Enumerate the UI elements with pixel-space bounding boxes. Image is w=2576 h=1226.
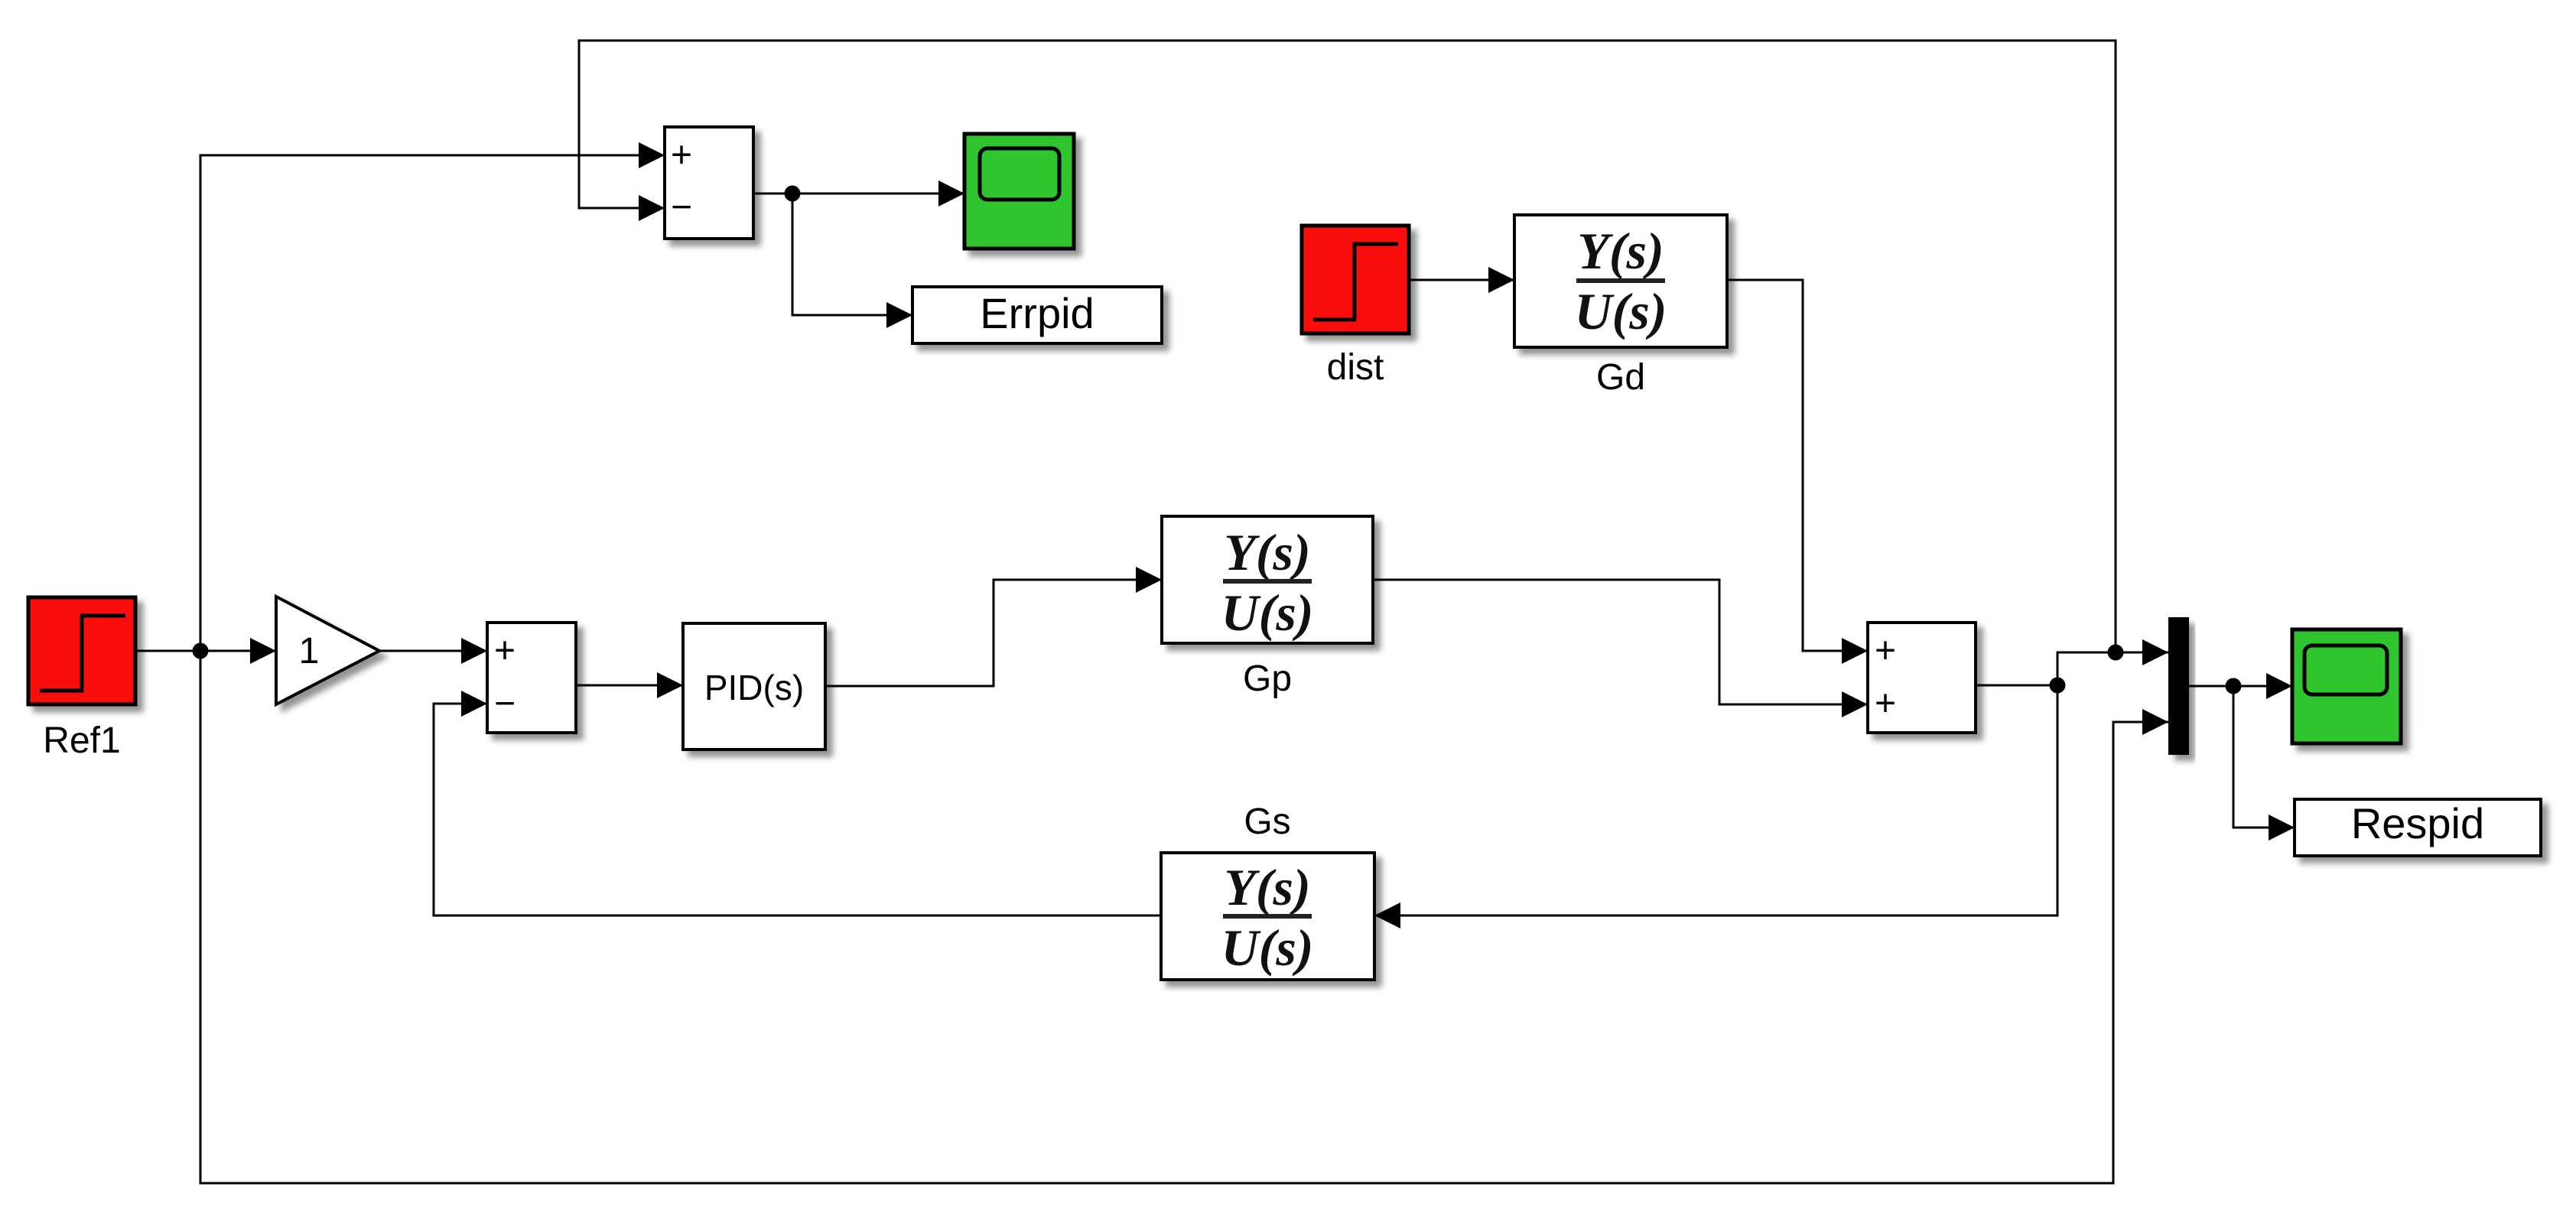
node A Ref1 output junction — [193, 643, 209, 659]
svg-text:Ref1: Ref1 — [43, 720, 120, 761]
wire PID output to Gp input — [825, 567, 1162, 686]
svg-text:Gs: Gs — [1244, 802, 1290, 842]
transfer function block Gd — [1514, 215, 1727, 347]
node E mux output junction — [2226, 678, 2242, 694]
svg-text:+: + — [1875, 631, 1896, 672]
wire Gs output to Sum2 minus input — [434, 691, 1161, 915]
svg-text:−: − — [494, 684, 516, 724]
wire Sum1 output to Scope1 input — [753, 180, 964, 207]
svg-text:Respid: Respid — [2351, 799, 2484, 847]
svg-text:Gp: Gp — [1243, 659, 1292, 699]
svg-text:Errpid: Errpid — [980, 289, 1094, 337]
svg-text:U(s): U(s) — [1575, 282, 1667, 340]
svg-text:−: − — [671, 187, 692, 228]
transfer function block Gp — [1162, 516, 1373, 643]
PID controller block PID(s) — [683, 623, 825, 750]
node C plant output junction — [2050, 678, 2066, 694]
wire dist output to Gd input — [1409, 267, 1514, 293]
svg-text:+: + — [1875, 684, 1896, 724]
svg-text:Y(s): Y(s) — [1577, 222, 1664, 280]
svg-text:PID(s): PID(s) — [704, 668, 804, 707]
svg-text:+: + — [494, 631, 516, 672]
to-workspace block Respid — [2295, 799, 2541, 856]
wire Ref1 output to Gain input — [135, 638, 276, 664]
step source Ref1 — [28, 597, 135, 704]
Gs fraction bar — [1223, 914, 1312, 919]
wire node E to Scope2 input — [2233, 673, 2292, 699]
svg-text:dist: dist — [1327, 347, 1384, 388]
wire Mux output to node E — [2189, 685, 2233, 688]
svg-text:Y(s): Y(s) — [1224, 523, 1310, 581]
wire Sum2 output to PID input — [576, 672, 683, 698]
svg-text:+: + — [671, 135, 692, 176]
wire Gain output to Sum2 plus input — [379, 638, 487, 664]
step source dist — [1302, 226, 1409, 333]
to-workspace block Errpid — [912, 287, 1162, 343]
node D top feedback tap — [2108, 645, 2124, 661]
node B error signal junction — [785, 186, 801, 202]
wire node D top feedback to Sum1 minus input — [579, 41, 2116, 652]
wire node C to Mux input 1 — [2057, 639, 2168, 685]
wire Gd output to Sum3 upper plus input — [1727, 280, 1868, 664]
transfer function block Gs — [1161, 853, 1374, 980]
wire Sum3 output to node C — [1976, 685, 2057, 687]
wire node A up to Sum1 plus input — [200, 142, 665, 651]
svg-text:1: 1 — [299, 631, 320, 672]
sum block Sum1 error comparator — [665, 127, 753, 239]
wire node E down to Respid input — [2233, 686, 2295, 841]
wire node C down to Gs input — [1374, 685, 2057, 928]
wire Gp output to Sum3 lower plus input — [1373, 580, 1868, 717]
Gp fraction bar — [1223, 579, 1312, 584]
svg-text:U(s): U(s) — [1221, 584, 1314, 642]
sum block Sum3 — [1868, 623, 1976, 733]
svg-text:Gd: Gd — [1596, 357, 1645, 398]
sum block Sum2 — [487, 623, 576, 733]
gain block value 1 — [276, 597, 379, 704]
wire node A bottom feedback to Mux input 2 — [200, 651, 2168, 1183]
mux block Mux1 — [2168, 617, 2189, 755]
wire node B down to Errpid input — [792, 193, 912, 328]
scope block Scope2 — [2292, 629, 2401, 743]
scope block Scope1 — [964, 134, 1074, 249]
svg-text:Y(s): Y(s) — [1224, 858, 1310, 916]
svg-text:U(s): U(s) — [1221, 919, 1314, 977]
Gd fraction bar — [1576, 278, 1665, 283]
